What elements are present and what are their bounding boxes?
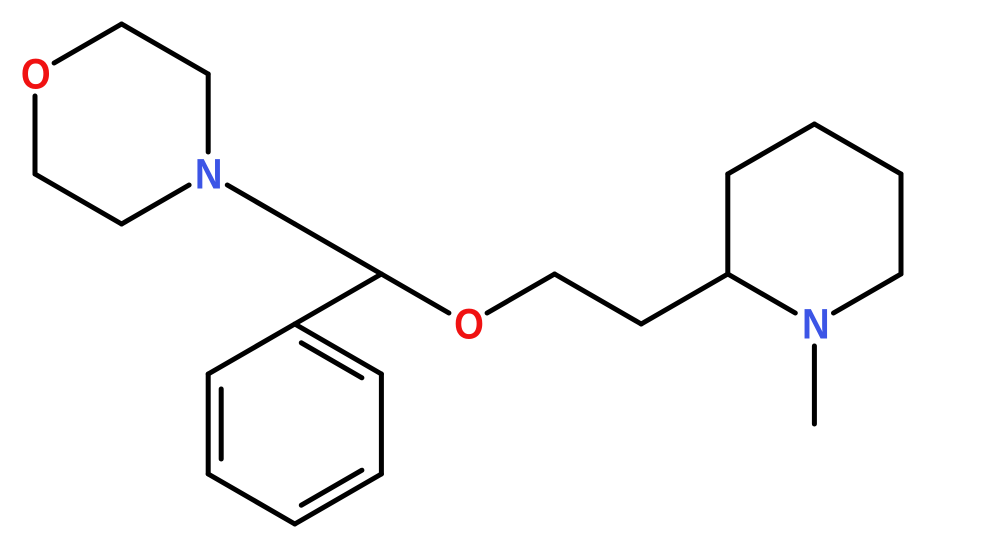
svg-text:O: O: [454, 300, 484, 348]
svg-text:N: N: [802, 300, 830, 348]
svg-text:N: N: [195, 150, 223, 198]
svg-text:O: O: [21, 50, 51, 98]
